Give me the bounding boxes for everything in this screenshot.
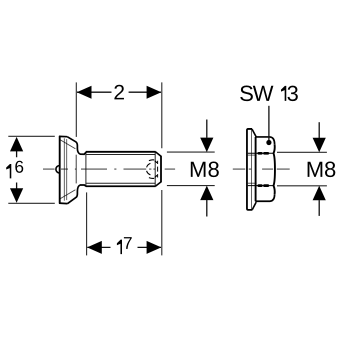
bolt head top edge [59,135,67,137]
nut flange thread tick bottom [248,182,257,184]
dim M8 nut: bottom tail [318,200,320,216]
dim M8 bolt: label [191,162,219,178]
head rim thin line 1 [63,138,65,200]
dim 2: left arrow [77,86,92,99]
bolt head left face [59,136,61,204]
bolt head bottom taper and neck [67,185,86,204]
SW13 label [240,86,298,102]
dim M8 bolt: bottom arrow [200,186,213,201]
head rim thin line 2 [66,139,68,200]
socket hidden arcs: top [149,159,154,162]
bolt end face [160,156,162,183]
bolt head bottom edge [59,202,67,205]
shaft major diameter top [86,151,156,153]
dim M8 bolt: top tail [206,120,208,138]
nut hex bottom edge [255,194,274,201]
dim M8 nut: label [308,162,336,178]
dim M8 bolt: bottom tail [206,200,208,217]
nut hex top edge [255,137,274,144]
bolt head top taper and neck [67,137,86,155]
nut chamfer beads top [259,152,268,155]
dim 2/17: ext line right [161,82,163,255]
dim 16: down arrow [10,188,23,203]
dim M8 nut: top tail [318,122,320,138]
dim 16: dimension line [16,151,18,189]
dim 2: dimension line [77,91,161,93]
nut flange bottom chamfer [252,202,256,210]
thread minor bottom [86,182,155,184]
socket hidden arcs: top right [155,161,157,163]
dim 17: dimension line [87,246,161,248]
dim 2: label [114,85,124,100]
nut hex face edge bottom [248,185,274,187]
end chamfer bottom [155,182,161,186]
dim 17: ext line left [86,192,88,255]
dim M8 nut: top arrow [313,138,326,153]
nut hex face edge top [248,152,274,154]
chamfer start vertical [154,153,156,186]
nut flange thread tick top [248,154,257,156]
socket inner arc dashed [147,163,151,174]
SW13 leader dot [266,140,271,145]
center line (bolt and nut axis) [43,168,290,170]
dim 2: ext line left [75,82,77,136]
shaft major diameter bottom [86,185,156,187]
dim 17: label [117,237,132,254]
head-shaft junction thin vertical [75,155,77,184]
nut chamfer beads bottom [259,184,268,187]
dim 2: right arrow [147,86,162,99]
nut flange top chamfer [252,129,256,137]
dim M8 nut: ext line bottom [277,185,327,187]
nut flange outline (left face, top and bottom edges) [247,129,252,210]
nut flange face thin line [251,130,253,210]
dim 17: left arrow [87,241,102,254]
socket flat dashed vertical [157,161,159,178]
dim M8 bolt: top arrow [200,138,213,153]
head cone highlight bottom [60,190,75,199]
dim M8 nut: bottom arrow [313,186,326,201]
nut hex right edge [274,144,275,194]
dim 17: right arrow [147,241,162,254]
dim M8 nut: ext line top [277,151,327,153]
bolt head nub [56,166,60,174]
dim M8 bolt: ext line top [167,151,215,153]
end chamfer top [155,152,161,156]
socket hidden arcs: bottom [149,177,154,180]
thread start vertical [85,153,87,186]
nut hex left edge [255,137,257,201]
socket hidden arcs: bottom right [155,175,157,177]
thread minor top [86,154,155,156]
dim 16: ext line bottom [8,202,55,204]
head cone highlight top [60,140,75,149]
dim M8 bolt: ext line bottom [167,185,215,187]
dim 16: ext line top [8,135,55,137]
SW13 leader line [268,106,270,141]
dim 16: label [6,161,23,179]
dim 16: up arrow [10,137,23,152]
